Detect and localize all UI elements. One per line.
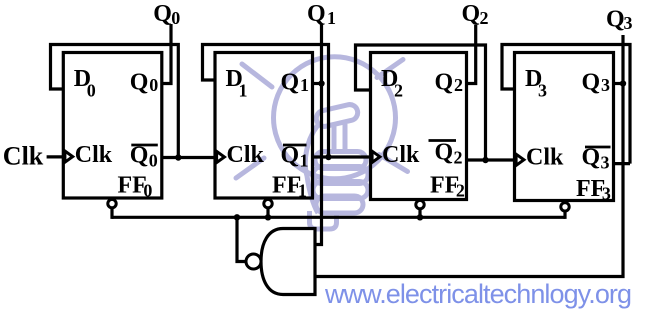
watermark ray lower-left [236, 158, 264, 178]
svg-text:Clk: Clk [227, 142, 265, 168]
watermark fist wrist [310, 211, 337, 229]
svg-text:Clk: Clk [3, 141, 44, 170]
flip-flop FF0 clock wedge [65, 151, 73, 162]
flip-flop FF3 clock wedge [516, 154, 524, 165]
watermark fist palm curve [305, 125, 318, 213]
NAND gate U1 output bubble [246, 254, 261, 269]
wire Qbar1 to FF2 clock [313, 155, 371, 158]
wire clear bus [112, 216, 565, 219]
svg-text:0: 0 [87, 80, 96, 100]
junction FF1 clear stem on bus [265, 214, 271, 220]
svg-text:Q: Q [582, 145, 601, 171]
svg-text:1: 1 [327, 8, 336, 28]
watermark fist finger 3 [313, 182, 368, 199]
svg-text:Q: Q [435, 140, 454, 166]
svg-text:Clk: Clk [526, 145, 564, 171]
svg-text:Q: Q [435, 70, 454, 96]
watermark ray upper-right [377, 60, 403, 78]
wire Qbar0 to FF1 clock [162, 156, 215, 159]
wire FF3 clear stem [563, 211, 566, 219]
wire Q2 output stub and terminal [467, 25, 476, 84]
label FF3 pin Qbar3 [585, 146, 611, 149]
svg-text:Q: Q [281, 70, 300, 96]
label FF0 pin Qbar0 [131, 144, 158, 147]
wire Qbar3 stub [614, 162, 631, 165]
label FF1 pin Qbar1 [283, 144, 307, 147]
flip-flop FF3 box [515, 53, 614, 201]
svg-text:0: 0 [143, 180, 152, 200]
junction Q1 stub [318, 80, 324, 86]
wire Clk input to FF0 [47, 155, 64, 158]
wire FF0 clear stem [110, 209, 113, 219]
flip-flop FF1 clock wedge [217, 151, 225, 162]
flip-flop FF1 clear bubble [264, 199, 272, 207]
flip-flop FF2 box [371, 53, 467, 200]
wire FF3 feedback loop Qbar3 to D3 [502, 45, 630, 164]
svg-text:Q: Q [582, 70, 601, 96]
watermark ray upper-left [242, 64, 272, 87]
svg-text:Clk: Clk [382, 142, 420, 168]
svg-text:0: 0 [171, 8, 180, 28]
svg-text:0: 0 [149, 151, 158, 171]
NAND gate U1 body [261, 229, 315, 295]
watermark fist finger 4 [316, 196, 363, 213]
wire NAND output riser [237, 218, 247, 262]
svg-text:2: 2 [480, 8, 489, 28]
svg-text:Q: Q [606, 7, 625, 33]
svg-text:2: 2 [454, 75, 463, 95]
wire FF1 clear stem [266, 209, 269, 219]
wire Q0 output stub and terminal [162, 24, 171, 84]
svg-text:2: 2 [394, 80, 403, 100]
svg-text:Clk: Clk [75, 142, 113, 168]
svg-text:2: 2 [454, 148, 463, 168]
wire FF1 feedback loop Qbar1 to D1 [203, 45, 329, 158]
flip-flop FF2 clear bubble [416, 200, 424, 208]
wire Qbar2 to FF3 clock [467, 158, 515, 161]
watermark fist thumb cap [315, 103, 360, 128]
svg-text:Q: Q [153, 1, 172, 27]
junction Qbar0 loop [175, 154, 181, 160]
wire Q1 output stub [313, 82, 322, 85]
svg-text:0: 0 [149, 75, 158, 95]
wire Q3 terminal to NAND input B [316, 35, 623, 277]
junction NAND output on bus [234, 214, 240, 220]
flip-flop FF3 clear bubble [561, 203, 569, 211]
flip-flop FF2 clock wedge [372, 151, 380, 162]
svg-text:Q: Q [281, 143, 300, 169]
watermark fist finger 1 [315, 152, 366, 169]
svg-text:Q: Q [130, 143, 149, 169]
wire FF2 feedback loop Qbar2 to D2 [356, 45, 486, 160]
svg-text:Q: Q [130, 70, 149, 96]
watermark logo bulb circle [274, 57, 396, 179]
svg-text:www.electricaltechnlogy.org: www.electricaltechnlogy.org [324, 279, 632, 309]
junction Qbar2 loop [482, 157, 488, 163]
junction Qbar1 loop [325, 154, 331, 160]
flip-flop FF1 box [215, 53, 313, 199]
watermark ray lower-right [379, 155, 408, 172]
wire FF2 clear stem [418, 209, 421, 219]
flip-flop FF0 box [63, 53, 162, 199]
junction FF2 clear stem on bus [417, 214, 423, 220]
wire FF0 feedback loop Qbar0 to D0 [51, 45, 179, 158]
flip-flop FF0 clear bubble [108, 199, 116, 207]
svg-text:1: 1 [239, 80, 248, 100]
svg-text:3: 3 [538, 80, 547, 100]
wire Q3 output stub [614, 82, 624, 85]
svg-text:3: 3 [602, 184, 611, 204]
svg-text:2: 2 [456, 180, 465, 200]
wire Q1 terminal to NAND input A [316, 24, 322, 245]
svg-text:1: 1 [300, 151, 309, 171]
svg-text:1: 1 [298, 180, 307, 200]
watermark bulb neck [334, 124, 345, 152]
junction Q3 stub [620, 80, 626, 86]
watermark fist finger 2 [313, 167, 368, 184]
svg-text:3: 3 [601, 153, 610, 173]
svg-text:Q: Q [307, 1, 326, 27]
label FF2 pin Qbar2 [429, 139, 457, 142]
svg-text:3: 3 [601, 75, 610, 95]
svg-text:Q: Q [462, 1, 481, 27]
svg-text:1: 1 [300, 75, 309, 95]
svg-text:3: 3 [624, 13, 633, 33]
